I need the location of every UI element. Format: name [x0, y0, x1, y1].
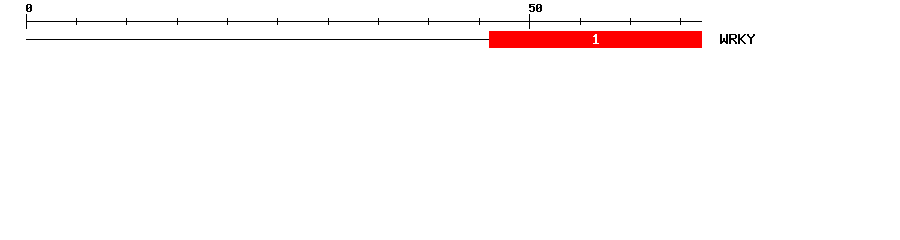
background — [0, 0, 900, 58]
ruler minor tick 30 — [328, 18, 329, 25]
domain box WRKY (red) — [489, 31, 702, 48]
ruler minor tick 40 — [428, 18, 429, 25]
ruler minor tick 20 — [227, 18, 228, 25]
ruler scale label "0" — [26, 4, 32, 12]
domain name label "WRKY" — [720, 34, 755, 44]
ruler minor tick 65 — [680, 18, 681, 25]
ruler minor tick 60 — [630, 18, 631, 25]
ruler minor tick 10 — [126, 18, 127, 25]
ruler minor tick 5 — [76, 18, 77, 25]
ruler minor tick 35 — [378, 18, 379, 25]
ruler major tick 0 — [26, 14, 27, 29]
protein backbone wire — [26, 39, 489, 40]
ruler baseline — [26, 21, 702, 22]
ruler minor tick 25 — [277, 18, 278, 25]
ruler minor tick 15 — [177, 18, 178, 25]
ruler scale label "50" — [529, 4, 542, 12]
ruler minor tick 55 — [580, 18, 581, 25]
domain number label "1" — [593, 34, 599, 44]
ruler major tick 50 — [529, 14, 530, 29]
ruler minor tick 45 — [479, 18, 480, 25]
